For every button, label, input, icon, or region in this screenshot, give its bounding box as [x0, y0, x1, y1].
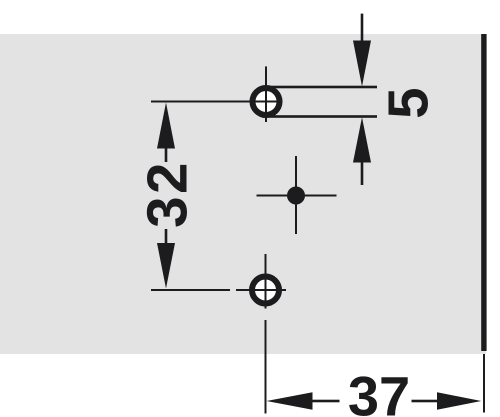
hole H2 crosshair vertical — [265, 254, 267, 309]
dimension 32: upper tail — [165, 148, 168, 162]
dimension 5: upper leader line — [361, 14, 364, 41]
slot bottom line — [262, 115, 377, 118]
slot top line — [262, 86, 377, 89]
svg-text:5: 5 — [377, 87, 440, 118]
dimension 37: right extension line — [483, 354, 485, 413]
hole H2 crosshair horizontal segment A / extension line of 32 — [151, 289, 230, 291]
dimension 5: lower leader line — [361, 161, 364, 185]
panel right edge border — [481, 34, 486, 351]
cup center dot — [287, 187, 305, 205]
cup center mark horizontal — [257, 195, 337, 197]
hole H1 crosshair vertical — [265, 66, 267, 122]
dimension 32: lower arrow — [157, 243, 175, 289]
dimension 32: upper arrow — [157, 103, 175, 149]
mounting panel — [0, 34, 486, 354]
cup center mark vertical — [295, 156, 297, 234]
screw hole H2 (bottom) — [252, 277, 279, 304]
dimension 37: right arrow — [437, 392, 481, 410]
dimension 5: down arrow — [353, 41, 371, 87]
svg-text:37: 37 — [348, 364, 410, 417]
dimension 37: line — [312, 400, 438, 403]
svg-text:32: 32 — [135, 160, 198, 228]
dimension 32: lower tail — [165, 229, 168, 244]
dimension 37: text halo — [340, 394, 412, 408]
dimension 37: left arrow — [267, 392, 313, 410]
dimension 5: up arrow — [353, 117, 371, 162]
hole H1 crosshair horizontal / extension line of 32 — [151, 101, 283, 103]
screw hole H1 (top) — [253, 88, 280, 115]
hole H2 crosshair horizontal segment B — [236, 289, 286, 291]
hole H2 extension line down to 37 dimension — [265, 320, 267, 414]
